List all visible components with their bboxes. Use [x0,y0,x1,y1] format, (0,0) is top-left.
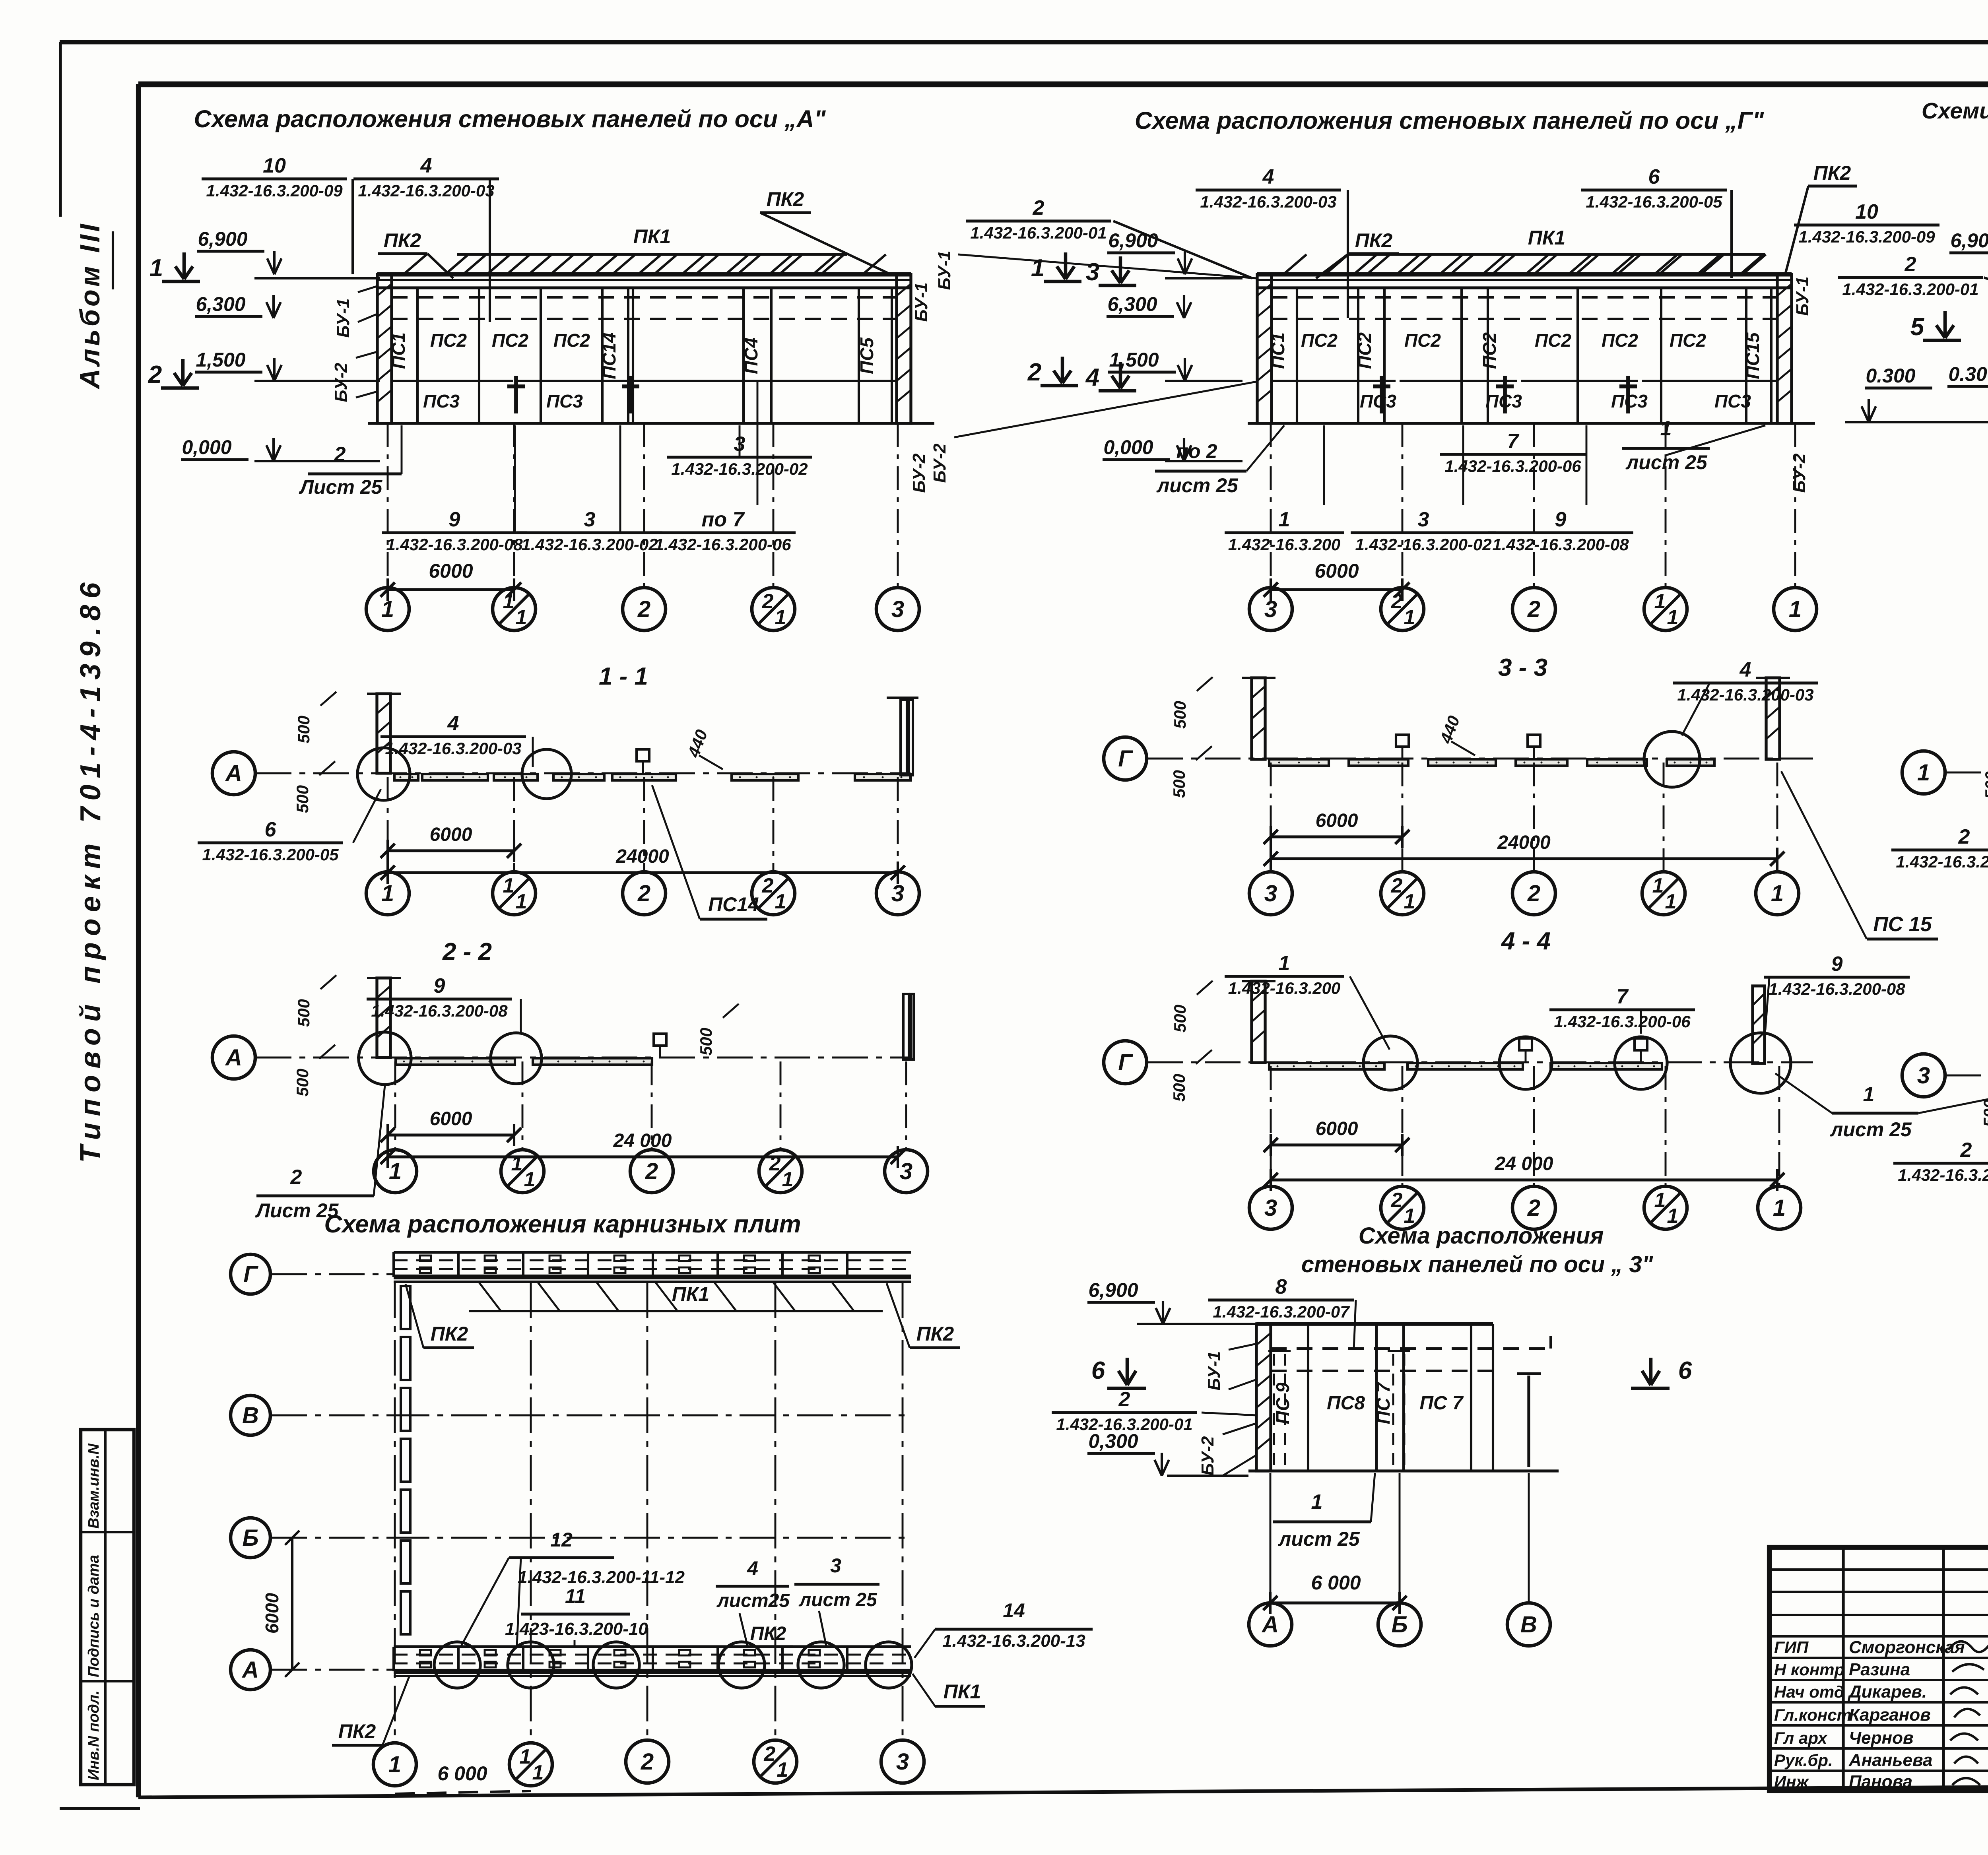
svg-text:1.432-16.3.200-08: 1.432-16.3.200-08 [371,1001,508,1020]
svg-text:2: 2 [290,1166,302,1189]
svg-text:9: 9 [449,508,460,531]
svg-text:2: 2 [769,1152,781,1175]
svg-text:1.432-16.3.200-01: 1.432-16.3.200-01 [1896,852,1988,871]
svg-text:2: 2 [637,596,650,622]
svg-text:2: 2 [1527,881,1540,906]
svg-text:4: 4 [747,1557,758,1579]
svg-text:1.432-16.3.200-08: 1.432-16.3.200-08 [1769,980,1905,998]
svg-text:1: 1 [1279,952,1290,975]
svg-text:6 000: 6 000 [437,1762,487,1785]
svg-text:3: 3 [584,508,596,531]
svg-text:6000: 6000 [429,560,473,582]
svg-text:6,900: 6,900 [198,228,247,250]
svg-text:В: В [242,1403,259,1428]
svg-text:3: 3 [1264,1195,1277,1221]
svg-text:ПС14: ПС14 [708,893,759,916]
svg-text:1: 1 [1773,1195,1786,1221]
svg-text:ПС15: ПС15 [1742,332,1763,379]
svg-text:1: 1 [1279,508,1290,531]
svg-text:Карганов: Карганов [1849,1705,1931,1725]
svg-text:1: 1 [1863,1083,1875,1106]
svg-text:Г: Г [1118,1050,1133,1075]
svg-text:24000: 24000 [1497,832,1551,853]
svg-text:Б: Б [1391,1612,1408,1638]
svg-text:по 2: по 2 [1176,440,1217,462]
svg-text:1.432-16.3.200-06: 1.432-16.3.200-06 [1554,1012,1691,1031]
svg-text:БУ-1: БУ-1 [1793,277,1812,316]
svg-text:0,000: 0,000 [1103,436,1153,458]
svg-text:1.432-16.3.200-08: 1.432-16.3.200-08 [386,535,523,554]
svg-text:1.432-16.3.200-09: 1.432-16.3.200-09 [1798,227,1935,246]
svg-text:0,300: 0,300 [1088,1430,1138,1452]
svg-text:1,500: 1,500 [196,349,245,371]
svg-text:БУ-1: БУ-1 [912,283,931,322]
svg-text:ПК2: ПК2 [338,1720,376,1742]
svg-text:1.432-16.3.200-01: 1.432-16.3.200-01 [970,223,1107,242]
svg-text:1.432-16.3.200-02: 1.432-16.3.200-02 [521,535,658,554]
svg-text:8: 8 [1276,1275,1287,1298]
svg-text:ПС 15: ПС 15 [1873,913,1932,936]
svg-text:В: В [1520,1612,1537,1638]
svg-text:6: 6 [265,818,277,841]
svg-text:1.432-16.3.200-11-12: 1.432-16.3.200-11-12 [518,1568,685,1587]
svg-text:6000: 6000 [1316,810,1358,831]
svg-text:3: 3 [896,1749,909,1775]
svg-text:1: 1 [524,1168,536,1191]
svg-text:1: 1 [1031,254,1044,282]
svg-text:ГИП: ГИП [1774,1638,1809,1657]
svg-text:А: А [225,761,242,786]
svg-text:2: 2 [762,874,774,897]
svg-text:6000: 6000 [430,824,472,845]
svg-text:2: 2 [637,881,650,906]
svg-text:24 000: 24 000 [1495,1153,1553,1174]
svg-text:Взам.инв.N: Взам.инв.N [85,1443,102,1529]
svg-text:ПС3: ПС3 [1360,391,1396,411]
svg-text:ПС8: ПС8 [1327,1393,1365,1414]
svg-text:500: 500 [294,716,313,743]
svg-text:11: 11 [565,1585,586,1607]
svg-text:500: 500 [1171,1005,1189,1032]
svg-text:6: 6 [1678,1357,1692,1384]
svg-text:500: 500 [1982,771,1988,799]
svg-text:1.432-16.3.200-08: 1.432-16.3.200-08 [1492,535,1629,554]
svg-text:2: 2 [1391,874,1403,897]
svg-text:Лист 25: Лист 25 [299,476,383,498]
svg-text:Рук.бр.: Рук.бр. [1774,1751,1833,1770]
svg-text:6,900: 6,900 [1088,1279,1138,1301]
svg-text:Подпись и дата: Подпись и дата [85,1555,102,1677]
svg-text:ПС14: ПС14 [599,332,619,379]
svg-text:2: 2 [148,361,162,388]
svg-text:ПС5: ПС5 [856,337,877,374]
svg-text:ПС 7: ПС 7 [1419,1393,1464,1414]
svg-text:1: 1 [775,606,786,629]
svg-text:2: 2 [1527,596,1540,622]
svg-text:ПК2: ПК2 [431,1323,468,1345]
svg-text:1: 1 [520,1745,531,1768]
svg-text:7: 7 [1617,985,1629,1008]
svg-text:4: 4 [420,154,432,177]
svg-text:ПС1: ПС1 [388,332,409,369]
svg-text:1,500: 1,500 [1109,349,1159,371]
svg-text:1: 1 [1789,596,1802,622]
svg-text:2: 2 [645,1158,658,1184]
svg-text:Г: Г [243,1261,258,1287]
svg-text:А: А [1261,1612,1279,1638]
svg-text:лист 25: лист 25 [798,1589,878,1611]
svg-text:6: 6 [1648,165,1660,188]
svg-text:Б: Б [242,1525,258,1551]
svg-text:3: 3 [900,1158,912,1184]
svg-text:ПК1: ПК1 [633,225,671,248]
svg-text:9: 9 [1831,953,1843,976]
svg-text:2: 2 [1960,1139,1972,1162]
svg-text:500: 500 [1170,1074,1188,1102]
svg-text:ПС2: ПС2 [492,330,528,351]
svg-text:6000: 6000 [430,1108,472,1129]
svg-text:1.432-16.3.200-05: 1.432-16.3.200-05 [1586,192,1722,211]
svg-text:2: 2 [762,590,774,613]
svg-text:ПС3: ПС3 [546,391,583,411]
svg-text:ПС2: ПС2 [1602,330,1638,351]
svg-text:3 - 3: 3 - 3 [1498,654,1547,681]
svg-text:6,900: 6,900 [1108,229,1158,252]
svg-text:500: 500 [1171,701,1189,729]
svg-text:2 - 2: 2 - 2 [442,938,492,966]
svg-text:1: 1 [777,1758,788,1781]
svg-text:Схема расположения карнизных п: Схема расположения карнизных плит [324,1211,801,1238]
svg-text:Г: Г [1118,746,1133,772]
svg-text:1: 1 [782,1168,794,1191]
svg-text:6,300: 6,300 [196,293,245,315]
svg-text:1.432-16.3.200-02: 1.432-16.3.200-02 [671,460,808,478]
svg-text:ПС2: ПС2 [1404,330,1441,351]
svg-text:по 7: по 7 [702,508,745,531]
svg-text:6: 6 [1091,1357,1105,1384]
svg-text:0.300: 0.300 [1866,365,1915,387]
svg-text:4: 4 [1739,658,1751,681]
svg-text:500: 500 [293,1069,312,1096]
svg-text:1.432-16.3.200-03: 1.432-16.3.200-03 [385,739,521,758]
svg-text:1: 1 [1404,606,1415,629]
svg-text:Нач отд: Нач отд [1774,1682,1844,1701]
svg-text:стеновых панелей по оси „ 3: стеновых панелей по оси „ 3" [1301,1252,1654,1277]
svg-text:Ананьева: Ананьева [1848,1750,1932,1770]
svg-text:ПК1: ПК1 [944,1680,981,1703]
svg-text:ПС3: ПС3 [423,391,460,411]
svg-text:лист 25: лист 25 [1156,474,1239,497]
svg-text:3: 3 [830,1554,841,1577]
svg-text:9: 9 [434,974,445,997]
svg-text:ПС2: ПС2 [1479,332,1500,369]
svg-text:1: 1 [389,1158,402,1184]
svg-text:1.432-16.3.200-03: 1.432-16.3.200-03 [1200,192,1336,211]
svg-text:6 000: 6 000 [1311,1572,1361,1594]
svg-text:24000: 24000 [615,846,669,867]
svg-text:2: 2 [1958,825,1970,848]
svg-text:2: 2 [1905,253,1916,276]
svg-text:ПС3: ПС3 [1714,391,1751,411]
svg-text:Инв.N подл.: Инв.N подл. [85,1690,102,1780]
svg-text:1: 1 [1654,590,1666,613]
svg-text:1: 1 [381,881,394,906]
svg-text:0.300: 0.300 [1948,363,1988,385]
svg-text:3: 3 [891,881,904,906]
svg-text:БУ-1: БУ-1 [1204,1351,1224,1391]
svg-text:1: 1 [1917,760,1930,786]
svg-text:1.423-16.3.200-10: 1.423-16.3.200-10 [505,1619,648,1639]
svg-text:БУ-2: БУ-2 [1790,453,1809,493]
svg-text:6,900: 6,900 [1950,229,1988,252]
svg-text:1.432-16.3.200-03: 1.432-16.3.200-03 [1677,685,1813,704]
svg-text:1: 1 [511,1152,523,1175]
svg-text:6000: 6000 [1314,560,1359,582]
svg-text:1.432-16.3.200-05: 1.432-16.3.200-05 [202,845,339,864]
svg-text:ПС2: ПС2 [1535,330,1571,351]
svg-text:2: 2 [1527,1195,1540,1221]
svg-text:БУ-2: БУ-2 [1198,1436,1217,1476]
svg-text:10: 10 [1855,200,1878,223]
svg-text:0,000: 0,000 [182,436,231,458]
svg-text:1: 1 [1311,1490,1323,1513]
svg-text:Схема расположения стеновых па: Схема расположения стеновых панелей по о… [194,105,826,132]
svg-text:1.432-16.3.200: 1.432-16.3.200 [1228,535,1341,554]
svg-text:БУ-1: БУ-1 [334,299,353,338]
svg-text:7: 7 [1507,430,1520,453]
svg-text:1: 1 [1667,1205,1679,1228]
svg-text:ПК2: ПК2 [767,188,804,210]
svg-text:1: 1 [532,1761,544,1784]
svg-text:ПК1: ПК1 [1528,227,1566,249]
svg-text:лист25: лист25 [716,1590,790,1611]
svg-text:1.432-16.3.200-01: 1.432-16.3.200-01 [1842,280,1978,299]
svg-text:ПС 9: ПС 9 [1272,1382,1293,1424]
svg-text:1: 1 [1665,890,1677,913]
svg-text:1: 1 [1654,1189,1666,1212]
svg-text:500: 500 [293,785,312,813]
svg-text:1.432-16.3.200: 1.432-16.3.200 [1228,979,1341,997]
svg-text:4: 4 [1262,165,1274,188]
svg-text:1: 1 [1667,606,1679,629]
svg-text:1: 1 [775,890,786,913]
svg-text:1.432-16.3.200-02: 1.432-16.3.200-02 [1355,535,1491,554]
svg-text:500: 500 [294,999,313,1027]
svg-text:БУ-2: БУ-2 [930,443,949,483]
svg-text:Альбом III: Альбом III [74,221,105,390]
svg-text:БУ-1: БУ-1 [935,251,954,290]
svg-text:1.432-16.3.200-06: 1.432-16.3.200-06 [1444,457,1581,475]
svg-text:Дикарев.: Дикарев. [1847,1682,1927,1702]
svg-text:3: 3 [1264,881,1277,906]
svg-text:ПС2: ПС2 [430,330,467,351]
svg-text:6000: 6000 [1316,1118,1358,1139]
svg-text:2: 2 [1118,1388,1130,1411]
svg-text:ПК2: ПК2 [916,1323,954,1345]
svg-text:Типовой проект 701-4-139.86: Типовой проект 701-4-139.86 [75,576,107,1163]
svg-text:лист 25: лист 25 [1278,1528,1360,1550]
svg-text:ПК2: ПК2 [750,1623,786,1644]
svg-text:Панова: Панова [1849,1772,1912,1791]
svg-text:4: 4 [1085,364,1099,391]
svg-text:4 - 4: 4 - 4 [1501,927,1551,955]
svg-text:1.432-16.3.200-01: 1.432-16.3.200-01 [1898,1166,1988,1184]
svg-text:А: А [241,1657,259,1683]
svg-text:Схема расположения стеновых па: Схема расположения стеновых панелей по о… [1135,107,1764,134]
svg-text:1: 1 [516,606,527,629]
svg-text:1.432-16.3.200-07: 1.432-16.3.200-07 [1213,1302,1350,1321]
svg-text:1: 1 [388,1752,401,1777]
svg-text:ПС1: ПС1 [1268,332,1288,369]
svg-text:лист 25: лист 25 [1830,1118,1912,1141]
svg-text:2: 2 [641,1749,654,1775]
svg-text:2: 2 [1027,359,1041,386]
svg-text:Гл арх: Гл арх [1774,1729,1828,1747]
svg-text:1: 1 [1652,874,1664,897]
svg-text:Инж: Инж [1774,1772,1809,1791]
svg-text:Н контр: Н контр [1774,1660,1844,1679]
svg-text:2: 2 [334,443,346,466]
svg-text:ПС4: ПС4 [741,338,761,374]
svg-text:6,300: 6,300 [1107,293,1157,315]
svg-text:ПС 7: ПС 7 [1373,1382,1394,1424]
svg-text:ПК1: ПК1 [672,1283,710,1305]
svg-text:500: 500 [1980,1099,1988,1127]
svg-text:1: 1 [516,890,527,913]
svg-text:ПК2: ПК2 [384,229,421,252]
svg-text:1 - 1: 1 - 1 [599,663,648,690]
svg-text:9: 9 [1555,508,1567,531]
svg-text:ПК2: ПК2 [1355,229,1393,252]
svg-text:2: 2 [1033,196,1044,219]
svg-text:1: 1 [503,874,514,897]
svg-text:1: 1 [1771,881,1784,906]
svg-text:Сморгонская: Сморгонская [1849,1638,1965,1657]
svg-text:500: 500 [1170,770,1188,798]
svg-text:10: 10 [263,154,286,177]
svg-text:ПС2: ПС2 [1670,330,1706,351]
svg-text:3: 3 [891,596,904,622]
svg-text:24 000: 24 000 [613,1130,672,1151]
svg-text:2: 2 [764,1742,776,1766]
svg-text:4: 4 [447,712,459,735]
svg-text:6000: 6000 [262,1593,282,1634]
svg-text:500: 500 [697,1028,715,1056]
svg-text:Чернов: Чернов [1849,1728,1914,1748]
svg-text:Гл.конст: Гл.конст [1774,1706,1852,1724]
svg-text:БУ-2: БУ-2 [909,453,929,493]
svg-text:3: 3 [1086,258,1099,286]
svg-text:А: А [225,1045,242,1071]
svg-text:1.432-16.3.200-06: 1.432-16.3.200-06 [654,535,791,554]
svg-text:1: 1 [1404,890,1415,913]
svg-text:ПК2: ПК2 [1813,162,1851,184]
svg-text:1: 1 [149,254,163,282]
svg-text:ПС2: ПС2 [553,330,590,351]
svg-text:5: 5 [1910,313,1925,341]
svg-text:2: 2 [1391,1189,1403,1212]
svg-text:1.432-16.3.200-03: 1.432-16.3.200-03 [358,181,494,200]
svg-text:ПС2: ПС2 [1354,332,1375,369]
svg-text:12: 12 [550,1529,573,1551]
svg-text:1.432-16.3.200-13: 1.432-16.3.200-13 [942,1631,1085,1651]
svg-text:14: 14 [1003,1599,1025,1622]
svg-text:Схеми расположения стеновых па: Схеми расположения стеновых панелей по о… [1922,98,1988,124]
svg-text:ПС2: ПС2 [1301,330,1338,351]
svg-text:БУ-2: БУ-2 [331,363,351,402]
svg-text:3: 3 [1418,508,1429,531]
svg-text:Разина: Разина [1849,1660,1910,1679]
svg-text:3: 3 [1917,1063,1930,1089]
svg-text:Схема расположения: Схема расположения [1359,1223,1604,1249]
svg-text:1.432-16.3.200-09: 1.432-16.3.200-09 [206,181,343,200]
